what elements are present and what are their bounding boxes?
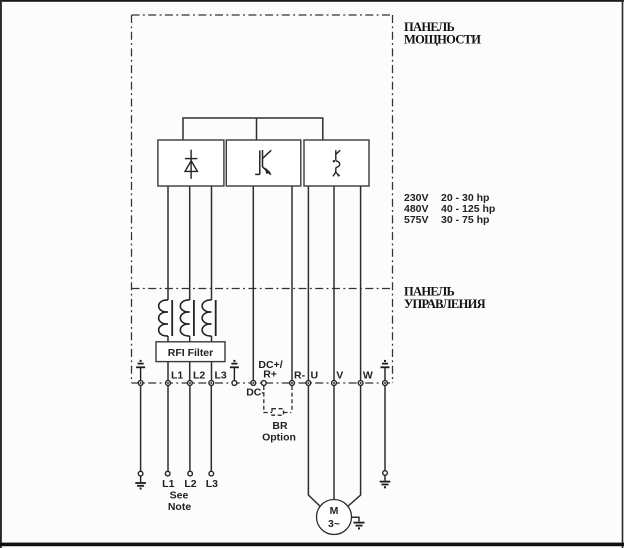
svg-text:R-: R- [294, 370, 306, 382]
svg-text:L3: L3 [206, 478, 218, 490]
svg-text:L1: L1 [171, 370, 183, 382]
svg-text:M: M [330, 505, 339, 517]
svg-text:L2: L2 [193, 370, 205, 382]
svg-text:U: U [311, 370, 319, 382]
svg-text:L2: L2 [184, 478, 196, 490]
svg-text:RFI Filter: RFI Filter [168, 347, 214, 359]
svg-text:Note: Note [168, 501, 191, 513]
svg-text:L3: L3 [215, 370, 227, 382]
svg-text:V: V [336, 370, 343, 382]
svg-text:R+: R+ [263, 369, 277, 381]
svg-text:Option: Option [262, 432, 296, 444]
svg-text:УПРАВЛЕНИЯ: УПРАВЛЕНИЯ [404, 297, 486, 311]
svg-text:3~: 3~ [328, 518, 340, 530]
svg-text:DC-: DC- [246, 387, 265, 399]
svg-text:W: W [363, 370, 373, 382]
svg-text:L1: L1 [162, 478, 174, 490]
svg-text:30 - 75 hp: 30 - 75 hp [441, 214, 489, 226]
svg-text:575V: 575V [404, 214, 429, 226]
svg-text:See: See [170, 490, 189, 502]
svg-text:МОЩНОСТИ: МОЩНОСТИ [404, 33, 481, 47]
svg-text:BR: BR [272, 420, 288, 432]
